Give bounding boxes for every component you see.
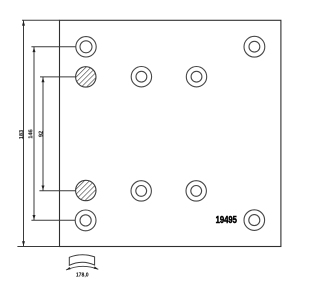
svg-text:178,0: 178,0 xyxy=(76,272,89,278)
svg-text:146: 146 xyxy=(28,129,34,138)
svg-text:19495: 19495 xyxy=(216,214,237,225)
svg-text:183: 183 xyxy=(19,130,25,139)
svg-text:92: 92 xyxy=(39,131,45,137)
